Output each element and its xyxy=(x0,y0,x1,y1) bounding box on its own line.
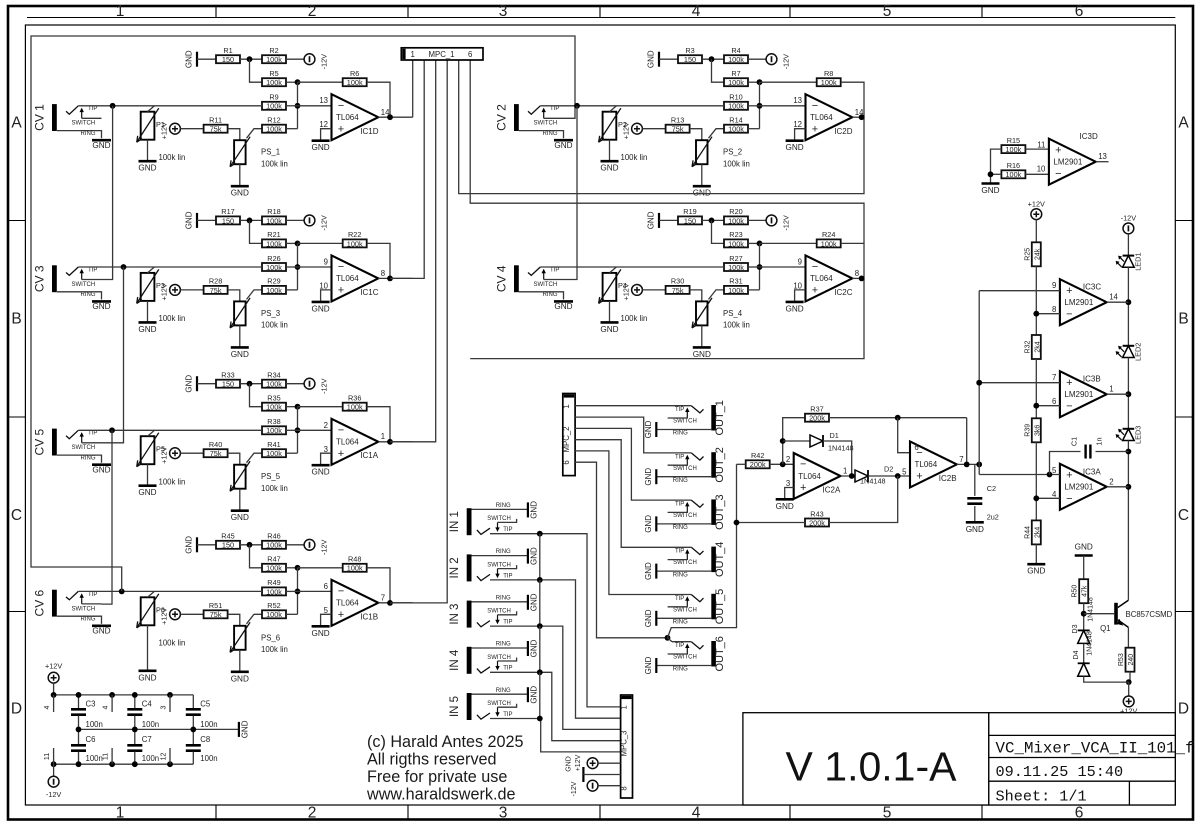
svg-text:R4: R4 xyxy=(731,46,740,55)
wire divider xyxy=(1035,442,1037,520)
svg-text:14: 14 xyxy=(1109,293,1118,302)
svg-text:−: − xyxy=(812,100,818,112)
power +12V xyxy=(160,608,181,625)
wire xyxy=(690,290,702,302)
svg-text:TIP: TIP xyxy=(675,502,684,508)
svg-text:+: + xyxy=(800,482,806,494)
wire ring xyxy=(472,647,528,649)
wire switch xyxy=(668,417,688,419)
wire switch xyxy=(544,117,564,119)
svg-text:12: 12 xyxy=(161,753,168,761)
wire ring xyxy=(656,523,711,525)
svg-text:IC3A: IC3A xyxy=(1083,467,1101,476)
svg-text:11: 11 xyxy=(1037,141,1045,150)
wire xyxy=(321,290,332,301)
svg-text:TIP: TIP xyxy=(550,106,559,112)
ground xyxy=(138,322,156,334)
svg-text:7: 7 xyxy=(381,593,385,602)
junction xyxy=(167,692,173,698)
svg-text:SWITCH: SWITCH xyxy=(673,560,697,566)
node D1 anode xyxy=(780,438,786,444)
svg-text:SWITCH: SWITCH xyxy=(487,655,511,661)
svg-text:1: 1 xyxy=(116,3,125,20)
wire xyxy=(1083,643,1085,663)
power -12V xyxy=(304,215,328,231)
svg-text:R43: R43 xyxy=(810,509,823,518)
wire xyxy=(367,82,390,117)
power +12V xyxy=(1028,199,1045,219)
svg-text:PS_3: PS_3 xyxy=(261,309,280,318)
wire xyxy=(759,82,761,129)
svg-text:100n: 100n xyxy=(200,720,217,729)
wire - input xyxy=(1036,497,1060,499)
ground xyxy=(92,463,111,466)
capacitor C8 xyxy=(186,745,201,750)
svg-text:P6: P6 xyxy=(156,605,165,614)
svg-text:C7: C7 xyxy=(142,735,152,744)
node Q1 base xyxy=(1081,611,1087,617)
wire xyxy=(286,219,304,221)
svg-text:2: 2 xyxy=(308,3,317,20)
svg-text:100k: 100k xyxy=(728,55,744,64)
wire bottom rail xyxy=(54,763,194,765)
svg-text:GND: GND xyxy=(138,488,156,497)
svg-text:-12V: -12V xyxy=(320,378,329,394)
potentiometer P4 xyxy=(599,269,621,303)
svg-text:5: 5 xyxy=(902,467,907,476)
svg-text:GND: GND xyxy=(241,720,250,738)
ground xyxy=(582,767,584,782)
wire xyxy=(286,544,304,546)
wire IN_5 tip to MPC_3 pin 5 xyxy=(490,719,621,752)
svg-text:1N4148: 1N4148 xyxy=(1088,597,1095,622)
jack OUT_6 xyxy=(644,636,726,674)
svg-text:IC1B: IC1B xyxy=(360,612,378,621)
wire xyxy=(759,243,761,290)
ground xyxy=(138,671,156,683)
jack OUT_5 xyxy=(644,589,726,627)
ground xyxy=(231,186,249,198)
svg-text:TIP: TIP xyxy=(503,666,512,672)
svg-text:4: 4 xyxy=(103,705,110,709)
svg-text:100n: 100n xyxy=(142,720,159,729)
svg-text:100k lin: 100k lin xyxy=(159,638,186,647)
resistor R44 xyxy=(1024,520,1041,544)
svg-text:LED1: LED1 xyxy=(1134,252,1143,270)
wire xyxy=(239,325,241,346)
wire xyxy=(286,58,304,60)
svg-text:+: + xyxy=(338,123,344,135)
resistor R27 xyxy=(724,254,748,272)
resistor R4 xyxy=(724,46,748,64)
svg-text:D1: D1 xyxy=(830,431,839,440)
diode D2 xyxy=(855,470,868,482)
wire xyxy=(53,683,55,695)
svg-text:GND: GND xyxy=(1027,567,1045,576)
wire ring xyxy=(656,476,711,478)
svg-text:RING: RING xyxy=(496,503,511,509)
wire xyxy=(286,242,298,244)
wire xyxy=(240,544,262,546)
wire output xyxy=(378,277,412,279)
svg-text:8: 8 xyxy=(381,269,385,278)
wire pot top xyxy=(148,430,155,436)
power +12V xyxy=(622,283,643,300)
wire fb down xyxy=(966,418,968,465)
wire xyxy=(702,58,724,60)
ground xyxy=(528,686,539,704)
wire xyxy=(583,774,620,776)
svg-text:−: − xyxy=(338,586,344,598)
junction xyxy=(295,79,301,85)
svg-text:6: 6 xyxy=(1075,804,1084,821)
svg-text:2k4: 2k4 xyxy=(1034,527,1041,538)
connector MPC_3 xyxy=(619,695,632,798)
svg-text:MPC_2: MPC_2 xyxy=(562,427,571,453)
svg-text:D2: D2 xyxy=(884,465,893,474)
svg-text:GND: GND xyxy=(92,141,110,150)
svg-text:75k: 75k xyxy=(210,610,222,619)
svg-text:3: 3 xyxy=(499,3,508,20)
node C1 tap xyxy=(1047,472,1053,478)
potentiometer PS_6 xyxy=(230,622,250,652)
svg-text:MPC_3: MPC_3 xyxy=(619,731,628,757)
resistor R43 xyxy=(805,509,829,527)
svg-text:VC_Mixer_VCA_II_101_f: VC_Mixer_VCA_II_101_f xyxy=(996,739,1195,757)
wire ring xyxy=(57,131,102,139)
svg-text:RING: RING xyxy=(496,688,511,694)
wire CV2 output loop xyxy=(459,60,864,194)
svg-text:10: 10 xyxy=(793,281,802,290)
svg-text:09.11.25 15:40: 09.11.25 15:40 xyxy=(996,763,1124,781)
svg-text:100k: 100k xyxy=(728,263,744,272)
junction xyxy=(295,404,301,410)
op-amp IC3C xyxy=(1052,279,1118,325)
svg-text:IN 3: IN 3 xyxy=(449,604,461,625)
wire xyxy=(240,58,262,60)
svg-text:9: 9 xyxy=(798,257,802,266)
ground xyxy=(776,499,794,511)
svg-text:+: + xyxy=(1055,144,1061,156)
ground xyxy=(966,522,984,534)
svg-text:100n: 100n xyxy=(200,754,217,763)
svg-text:OUT_1: OUT_1 xyxy=(714,400,726,435)
svg-text:GND: GND xyxy=(530,686,539,704)
svg-text:R53: R53 xyxy=(1118,653,1125,666)
node bus R43 xyxy=(734,520,740,526)
resistor R12 xyxy=(262,116,286,134)
potentiometer PS_1 xyxy=(230,137,250,167)
wire xyxy=(228,129,240,141)
svg-text:6: 6 xyxy=(1075,3,1084,20)
wire to pot xyxy=(247,453,263,463)
wire ring xyxy=(519,292,564,300)
svg-text:1: 1 xyxy=(411,50,415,59)
ground xyxy=(528,639,539,657)
jack OUT_1 xyxy=(644,400,726,438)
svg-text:−: − xyxy=(1066,493,1072,505)
svg-text:5: 5 xyxy=(883,3,892,20)
wire xyxy=(297,568,299,615)
wire xyxy=(197,544,216,546)
svg-text:10: 10 xyxy=(1037,165,1046,174)
junction xyxy=(1033,403,1039,409)
svg-text:GND: GND xyxy=(566,756,573,772)
svg-text:GND: GND xyxy=(311,629,329,638)
wire xyxy=(1035,220,1037,243)
resistor R28 xyxy=(204,277,228,295)
wire xyxy=(760,81,817,83)
svg-text:CV 2: CV 2 xyxy=(494,104,508,131)
svg-text:100k lin: 100k lin xyxy=(261,484,288,493)
svg-text:+: + xyxy=(916,471,922,483)
power +12V xyxy=(160,283,181,300)
svg-text:RING: RING xyxy=(673,572,688,578)
wire xyxy=(192,752,194,765)
svg-text:B: B xyxy=(11,311,21,328)
wire xyxy=(78,695,80,709)
svg-text:C6: C6 xyxy=(86,735,96,744)
potentiometer P6 xyxy=(137,594,159,628)
wire switch xyxy=(544,279,564,281)
wire MPC_2 pin 2 to OUT_2 tip xyxy=(575,417,691,453)
resistor R18 xyxy=(262,207,286,225)
svg-text:SWITCH: SWITCH xyxy=(487,516,511,522)
node out CV6 xyxy=(387,600,393,606)
junction xyxy=(109,692,115,698)
junction xyxy=(976,380,982,386)
wire xyxy=(250,384,263,407)
svg-text:100k lin: 100k lin xyxy=(723,321,750,330)
wire C2 top xyxy=(974,464,976,496)
wire MPC_2 pin 6 to OUT_6 tip xyxy=(575,462,667,638)
svg-text:R27: R27 xyxy=(729,254,742,263)
svg-text:P5: P5 xyxy=(156,444,165,453)
wire CV out to MPC_1 pin 4 xyxy=(390,60,447,603)
junction xyxy=(757,241,763,247)
svg-text:11: 11 xyxy=(44,753,51,760)
svg-text:MPC_1: MPC_1 xyxy=(429,50,455,59)
wire pin6 xyxy=(898,418,910,453)
wire switch xyxy=(668,464,688,466)
svg-text:100k: 100k xyxy=(1005,145,1021,154)
wire collector xyxy=(1127,598,1129,600)
svg-text:24k: 24k xyxy=(1034,248,1041,260)
ground xyxy=(981,184,999,196)
resistor R5 xyxy=(262,69,286,87)
svg-text:TIP: TIP xyxy=(503,527,512,533)
wire xyxy=(1129,672,1131,682)
svg-text:GND: GND xyxy=(600,164,618,173)
capacitor C3 xyxy=(71,709,86,714)
svg-text:IC2B: IC2B xyxy=(939,474,957,483)
svg-text:100k: 100k xyxy=(728,286,744,295)
svg-text:8: 8 xyxy=(619,786,628,790)
svg-text:GND: GND xyxy=(231,513,249,522)
wire CV out to MPC_1 pin 1 xyxy=(412,60,414,117)
svg-text:A: A xyxy=(1178,115,1189,132)
wire xyxy=(197,219,216,221)
wire xyxy=(1035,544,1037,563)
wire xyxy=(297,243,299,290)
wire IN_1 tip to MPC_3 pin 1 xyxy=(490,534,621,707)
svg-text:SWITCH: SWITCH xyxy=(673,466,697,472)
svg-text:TIP: TIP xyxy=(550,267,559,273)
svg-text:IC3C: IC3C xyxy=(1083,283,1101,292)
wire tip xyxy=(78,590,262,592)
capacitor C7 xyxy=(127,745,142,750)
wire xyxy=(298,406,343,408)
svg-text:GND: GND xyxy=(138,325,156,334)
junction xyxy=(109,761,115,767)
svg-text:RING: RING xyxy=(81,131,96,137)
svg-text:TIP: TIP xyxy=(88,267,97,273)
node OUT_6 tip xyxy=(665,635,671,641)
svg-text:IC1D: IC1D xyxy=(360,127,378,136)
svg-text:R26: R26 xyxy=(267,254,280,263)
wire tip xyxy=(78,429,262,431)
wire xyxy=(286,105,298,107)
wire xyxy=(286,406,298,408)
wire xyxy=(286,590,298,592)
svg-text:−: − xyxy=(1066,400,1072,412)
svg-text:GND: GND xyxy=(600,325,618,334)
wire to pot xyxy=(709,290,725,300)
junction xyxy=(295,103,301,109)
resistor R45 xyxy=(216,532,240,550)
wire xyxy=(78,729,80,744)
resistor R35 xyxy=(262,394,286,412)
wire IN_4 tip to MPC_3 pin 4 xyxy=(490,672,621,740)
wire ring xyxy=(472,555,528,557)
wire IC3A out xyxy=(1107,486,1129,488)
resistor R29 xyxy=(262,277,286,295)
diode D4 xyxy=(1078,663,1090,676)
svg-text:-12V: -12V xyxy=(320,54,329,70)
wire xyxy=(134,729,136,744)
node CV6 tip xyxy=(119,589,125,595)
wire xyxy=(748,289,760,291)
power +12V xyxy=(622,122,643,139)
wire to pot xyxy=(247,129,263,139)
resistor R37 xyxy=(805,405,829,423)
junction xyxy=(988,171,994,177)
node out CV3 xyxy=(387,276,393,282)
svg-text:75k: 75k xyxy=(672,125,684,134)
svg-text:PS_4: PS_4 xyxy=(723,309,743,318)
svg-text:100k: 100k xyxy=(266,541,282,550)
resistor R39 xyxy=(1024,418,1041,442)
svg-text:R28: R28 xyxy=(209,277,222,286)
svg-text:−: − xyxy=(812,261,818,273)
svg-text:150: 150 xyxy=(222,380,234,389)
svg-text:9: 9 xyxy=(324,257,328,266)
op-amp IC3B xyxy=(1052,371,1113,417)
op-amp IC1D xyxy=(319,94,390,140)
resistor R34 xyxy=(262,371,286,389)
ground xyxy=(644,515,656,533)
wire IN_3 tip chain xyxy=(539,626,541,672)
wire xyxy=(841,82,864,117)
svg-text:+: + xyxy=(338,448,344,460)
wire switch xyxy=(498,611,517,615)
resistor R15 xyxy=(1001,136,1025,154)
resistor R50 xyxy=(1072,579,1089,603)
jack OUT_2 xyxy=(644,447,726,485)
wire switch xyxy=(668,653,688,655)
svg-text:GND: GND xyxy=(92,466,110,475)
wire xyxy=(321,129,332,140)
wire xyxy=(321,453,332,464)
wire MPC_2 pin 5 to OUT_5 tip xyxy=(575,451,691,595)
wire xyxy=(701,164,703,185)
ground xyxy=(528,547,539,565)
svg-text:R47: R47 xyxy=(267,555,280,564)
jack CV 2 xyxy=(494,104,573,150)
svg-text:GND: GND xyxy=(92,302,110,311)
svg-text:7: 7 xyxy=(959,455,963,464)
wire switch xyxy=(498,519,517,523)
svg-text:RING: RING xyxy=(673,431,688,437)
svg-text:GND: GND xyxy=(185,50,194,68)
wire IC3B out xyxy=(1107,393,1129,395)
svg-text:PS_5: PS_5 xyxy=(261,472,281,481)
svg-text:-12V: -12V xyxy=(571,781,578,796)
diode D1 xyxy=(810,435,823,447)
svg-text:TL064: TL064 xyxy=(336,438,359,447)
potentiometer P5 xyxy=(137,433,159,467)
svg-text:P2: P2 xyxy=(618,120,627,129)
wire power pin 4 xyxy=(53,695,55,712)
wire divider xyxy=(1035,266,1037,335)
wire power pin 4 xyxy=(111,695,113,712)
svg-text:-12V: -12V xyxy=(782,54,791,70)
resistor R31 xyxy=(724,277,748,295)
wire xyxy=(367,568,390,603)
wire xyxy=(180,289,203,291)
resistor R49 xyxy=(262,578,286,596)
node CV2 tip xyxy=(574,103,580,109)
wire xyxy=(795,129,806,140)
ground xyxy=(92,624,111,627)
jack IN 3 xyxy=(449,593,539,627)
wire tip xyxy=(78,105,262,107)
svg-text:+: + xyxy=(338,285,344,297)
ground xyxy=(311,626,329,638)
svg-text:OUT_3: OUT_3 xyxy=(714,494,726,529)
junction xyxy=(51,692,57,698)
junction xyxy=(76,692,82,698)
junction xyxy=(190,727,196,733)
svg-text:100k lin: 100k lin xyxy=(261,645,288,654)
wire MPC_2 pin 4 to OUT_4 tip xyxy=(575,440,691,548)
svg-text:IC1C: IC1C xyxy=(360,288,378,297)
wire xyxy=(991,173,1002,175)
svg-text:R36: R36 xyxy=(348,394,361,403)
svg-text:R11: R11 xyxy=(209,116,222,125)
wire ring xyxy=(57,455,102,463)
svg-text:SWITCH: SWITCH xyxy=(72,282,96,288)
jack OUT_4 xyxy=(644,542,726,580)
resistor R36 xyxy=(343,394,367,412)
power +12V xyxy=(160,446,181,463)
svg-text:R21: R21 xyxy=(267,230,280,239)
wire ring xyxy=(519,131,564,139)
svg-text:GND: GND xyxy=(185,211,194,229)
wire xyxy=(702,219,724,221)
wire xyxy=(286,81,298,83)
svg-text:GND: GND xyxy=(138,164,156,173)
